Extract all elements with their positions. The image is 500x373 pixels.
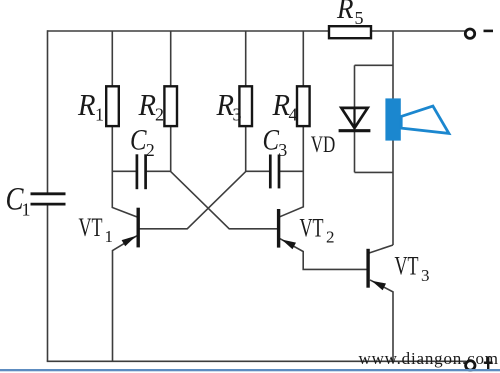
label C2 bbox=[130, 124, 155, 160]
wire R3 bottom, cross diagonal to VT1 base bbox=[140, 126, 246, 229]
wire C3 left bbox=[246, 170, 269, 172]
bottom blue divider line bbox=[0, 369, 500, 371]
svg-text:www.diangon.com: www.diangon.com bbox=[359, 349, 499, 368]
svg-text:VT: VT bbox=[395, 252, 419, 281]
capacitor C3 bbox=[270, 155, 279, 189]
wire VT2 emitter to VT3 base bbox=[280, 239, 367, 270]
resistor R3 bbox=[239, 86, 252, 126]
wire diode box top bbox=[355, 64, 394, 66]
label VT2 bbox=[300, 214, 335, 247]
svg-text:2: 2 bbox=[326, 228, 335, 247]
svg-text:3: 3 bbox=[421, 266, 430, 285]
svg-text:VT: VT bbox=[300, 214, 324, 243]
wire R2 bottom, cross diagonal to VT2 base bbox=[171, 126, 278, 229]
wire left rail lower bbox=[47, 205, 49, 361]
svg-text:R: R bbox=[216, 87, 234, 122]
svg-text:C: C bbox=[130, 124, 147, 157]
wire VT3 emitter to bottom rail bbox=[370, 280, 393, 361]
wire bottom rail bbox=[47, 360, 466, 362]
speaker (blue) bbox=[385, 98, 449, 140]
label R3 bbox=[216, 87, 242, 125]
svg-text:VT: VT bbox=[79, 213, 103, 242]
label VT3 bbox=[395, 252, 430, 286]
svg-text:R: R bbox=[77, 87, 95, 122]
transistor VT3 bbox=[368, 249, 386, 290]
label R4 bbox=[272, 87, 298, 125]
wire C3 right bbox=[280, 170, 303, 172]
label R5 bbox=[336, 0, 363, 28]
svg-text:R: R bbox=[138, 87, 156, 122]
wire left rail upper bbox=[47, 30, 49, 193]
wire top rail bbox=[47, 30, 465, 32]
wire speaker branch vertical bbox=[392, 31, 394, 245]
diode VD bbox=[339, 108, 371, 131]
minus sign bbox=[484, 30, 494, 33]
svg-text:R: R bbox=[336, 0, 353, 25]
svg-text:R: R bbox=[272, 87, 290, 122]
resistor R1 bbox=[106, 86, 119, 126]
wire diode cathode lead bbox=[354, 131, 356, 173]
wire VT1 emitter to bottom rail bbox=[113, 235, 138, 362]
svg-text:1: 1 bbox=[22, 200, 31, 220]
wire R2 top bbox=[170, 31, 172, 87]
capacitor C1 bbox=[31, 194, 66, 204]
wire C2 right bbox=[147, 170, 171, 172]
wire R1 bottom to VT1 collector bbox=[112, 126, 138, 218]
wire R4 top bbox=[302, 31, 304, 87]
label C3 bbox=[263, 124, 288, 160]
label C1 bbox=[6, 182, 31, 220]
wire R3 top bbox=[245, 31, 247, 87]
label R2 bbox=[138, 87, 164, 125]
svg-text:2: 2 bbox=[146, 140, 155, 160]
terminal top (negative) bbox=[465, 29, 474, 38]
capacitor C2 bbox=[137, 154, 146, 189]
svg-text:3: 3 bbox=[233, 105, 242, 125]
wire diode box bottom bbox=[355, 171, 394, 173]
wire C2 left bbox=[112, 170, 136, 172]
svg-text:5: 5 bbox=[355, 8, 364, 28]
svg-text:4: 4 bbox=[289, 105, 298, 125]
wire diode anode lead bbox=[354, 65, 356, 108]
wire R4 bottom to VT2 collector bbox=[279, 126, 304, 218]
svg-text:VD: VD bbox=[311, 132, 336, 158]
resistor R2 bbox=[164, 86, 177, 126]
resistor R4 bbox=[297, 86, 310, 126]
plus sign bbox=[484, 357, 493, 371]
svg-text:3: 3 bbox=[278, 140, 287, 160]
wire VT3 collector diagonal bbox=[369, 245, 393, 253]
resistor R5 bbox=[329, 26, 371, 38]
terminal bottom (positive) bbox=[466, 361, 475, 370]
svg-text:2: 2 bbox=[155, 105, 164, 125]
label VT1 bbox=[79, 213, 114, 246]
svg-text:1: 1 bbox=[105, 227, 114, 246]
svg-text:1: 1 bbox=[95, 105, 104, 125]
transistor VT1 bbox=[122, 208, 139, 248]
transistor VT2 bbox=[279, 209, 296, 249]
svg-text:C: C bbox=[263, 124, 280, 157]
wire R1 top bbox=[111, 31, 113, 87]
label R1 bbox=[77, 87, 104, 125]
